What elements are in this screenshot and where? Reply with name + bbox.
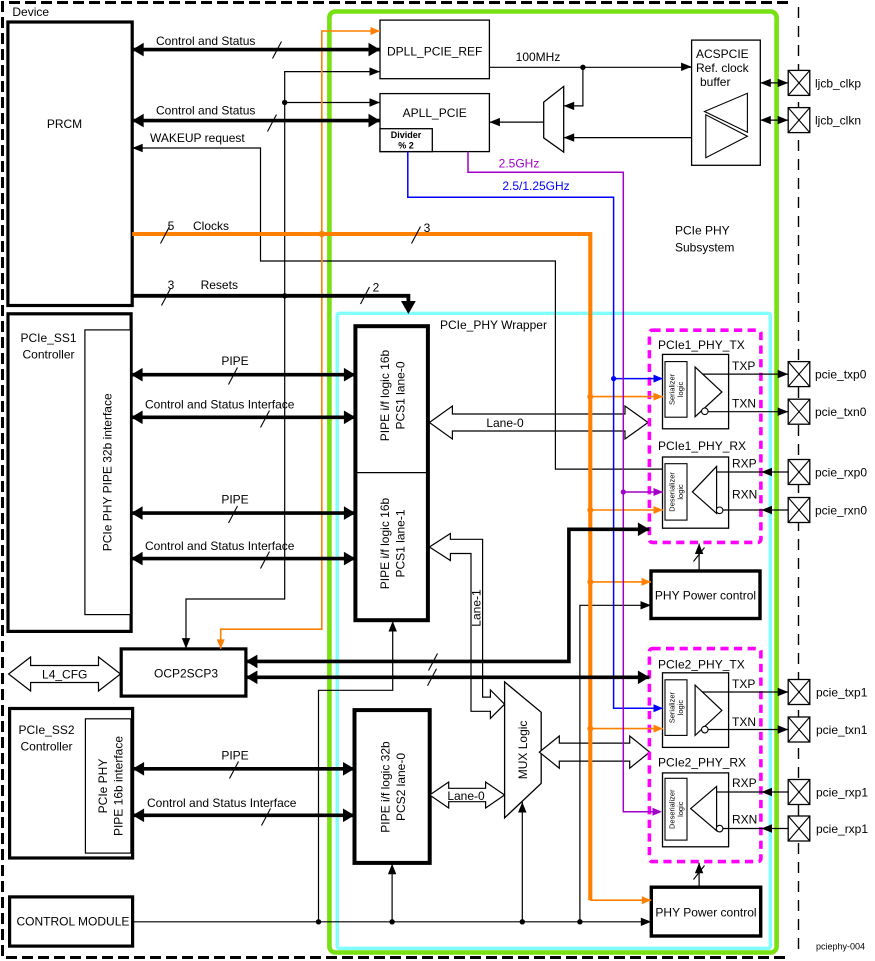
svg-text:PCIe PHY: PCIe PHY	[675, 224, 730, 238]
RX buffer triangle (PCIe1)	[692, 466, 716, 513]
wire TXP PCIe1 to pad pcie_txp0	[702, 373, 788, 375]
svg-text:Control and Status: Control and Status	[156, 34, 255, 48]
svg-text:2.5GHz: 2.5GHz	[499, 157, 540, 171]
block CONTROL MODULE	[10, 897, 133, 946]
svg-text:Lane-0: Lane-0	[486, 416, 524, 430]
svg-text:2.5/1.25GHz: 2.5/1.25GHz	[502, 179, 569, 193]
svg-text:Control and Status Interface: Control and Status Interface	[147, 796, 297, 810]
wire orange branch to serializer PCIe1	[590, 396, 663, 398]
svg-text:PCS2 lane-0: PCS2 lane-0	[394, 753, 408, 821]
wire orange branch to OCP2SCP3	[221, 234, 322, 649]
node orange junction at green boundary	[319, 231, 325, 237]
bus Control and Status PRCM-APLL	[132, 119, 380, 123]
svg-text:PIPE i/f logic 16b: PIPE i/f logic 16b	[378, 349, 392, 441]
svg-text:Lane-0: Lane-0	[447, 789, 485, 803]
svg-text:PRCM: PRCM	[47, 117, 82, 131]
svg-text:PCS1 lane-0: PCS1 lane-0	[394, 361, 408, 429]
node 100MHz junction	[580, 65, 585, 70]
wire CONTROL MODULE to PHY power controls	[133, 921, 652, 923]
svg-text:TXN: TXN	[732, 715, 756, 729]
block PIPE i/f logic 32b PCS2 lane-0	[355, 710, 430, 863]
svg-text:TXN: TXN	[732, 397, 756, 411]
wire purple branch to deserializer PCIe1	[623, 491, 663, 493]
slash on clocks bus	[161, 227, 170, 244]
bus Control and Status PRCM-DPLL	[132, 48, 380, 52]
PCIe2_PHY_RX inner box	[663, 773, 729, 847]
svg-text:L4_CFG: L4_CFG	[42, 668, 87, 682]
wire control module to PHY Power control upper	[580, 605, 651, 922]
wire 100MHz DPLL to ACSPCIE	[489, 66, 691, 68]
wire RXN pad to PCIe2 RX	[723, 828, 788, 830]
pad pcie_txp1	[788, 680, 810, 705]
TX buffer triangle (PCIe1)	[695, 367, 722, 417]
block PCIe_SS1 Controller	[8, 314, 131, 632]
node control module line junction 3	[520, 919, 525, 924]
svg-text:pcie_rxp0: pcie_rxp0	[815, 465, 867, 479]
PCIe2 PHY magenta dashed boundary	[649, 649, 761, 862]
svg-text:Device: Device	[12, 5, 49, 19]
bus Control and Status Interface SS1 lane0	[131, 415, 355, 419]
svg-text:pciephy-004: pciephy-004	[816, 942, 865, 952]
wire orange branch to PHY Power control upper	[590, 581, 651, 583]
svg-text:PCS1 lane-1: PCS1 lane-1	[394, 509, 408, 577]
clock mux symbol	[544, 86, 564, 152]
block PRCM	[8, 22, 132, 306]
slash on PIPE bus 3	[230, 762, 239, 779]
svg-text:pcie_rxp1: pcie_rxp1	[816, 785, 868, 799]
hollow arrow L4_CFG	[9, 657, 121, 691]
PCIe_SS2 inner PIPE 16b interface box	[85, 719, 130, 853]
ACSPCIE buffer triangle lower	[706, 115, 748, 158]
bus PIPE SS1 lane1	[131, 511, 355, 515]
slash on clocks bus branch 3	[412, 227, 421, 244]
wire TXN PCIe2 to pad pcie_txn1	[708, 729, 788, 731]
svg-text:PIPE: PIPE	[221, 748, 248, 762]
svg-text:3: 3	[168, 278, 175, 292]
svg-text:buffer: buffer	[700, 75, 730, 89]
svg-text:PIPE 16b interface: PIPE 16b interface	[112, 736, 126, 836]
slash on Control and Status bus 2	[268, 115, 277, 132]
svg-text:pcie_txn1: pcie_txn1	[816, 723, 868, 737]
svg-text:PCIe_SS2: PCIe_SS2	[18, 723, 74, 737]
PCIe1_PHY_RX inner box	[663, 457, 729, 528]
wire control module to PCS2 bottom	[391, 863, 393, 922]
svg-text:Controller: Controller	[22, 348, 74, 362]
wire orange branch to deserializer PCIe1	[590, 509, 663, 511]
TX inverter bubble (PCIe1)	[702, 408, 709, 415]
svg-text:ljcb_clkn: ljcb_clkn	[815, 114, 861, 128]
bus PIPE SS2	[133, 767, 355, 771]
bus OCP2SCP3 to PCIe1 PHY registers	[246, 529, 650, 661]
svg-text:PCIe_PHY Wrapper: PCIe_PHY Wrapper	[440, 318, 547, 332]
slash on CSI bus 1	[261, 411, 270, 428]
block PHY Power control (upper)	[651, 571, 760, 619]
wire PHY Power control lower to PCIe2 PHY	[698, 863, 700, 888]
PCIe1 PHY magenta dashed boundary	[649, 330, 761, 542]
slash on resets branch 2	[361, 287, 370, 304]
hollow arrow Lane-1 PCS1 to MUX (bent)	[429, 534, 504, 719]
svg-text:logic: logic	[676, 801, 685, 817]
slash on OCP2SCP3 bus 1	[429, 654, 438, 671]
svg-text:pcie_txp1: pcie_txp1	[816, 685, 868, 699]
svg-text:OCP2SCP3: OCP2SCP3	[154, 667, 218, 681]
wire control to DPLL and APLL thin inputs	[186, 72, 380, 649]
wire purple 2.5GHz from APLL	[468, 152, 660, 812]
svg-text:PIPE i/f logic 32b: PIPE i/f logic 32b	[379, 741, 393, 833]
wire orange branch to DPLL_PCIE_REF	[322, 31, 380, 234]
svg-text:TXP: TXP	[732, 359, 755, 373]
wire PHY Power control upper to PCIe1 PHY	[698, 544, 700, 572]
deserializer logic box (PCIe1)	[665, 464, 687, 520]
hollow arrow MUX to PCIe2 PHY	[539, 736, 649, 768]
bus Control and Status Interface SS1 lane1	[131, 557, 355, 561]
TX buffer triangle (PCIe2)	[695, 685, 722, 735]
pad ljcb_clkp	[788, 70, 810, 95]
RX inverter bubble (PCIe1)	[716, 507, 723, 514]
svg-text:RXP: RXP	[732, 457, 757, 471]
block PHY Power control (lower)	[651, 887, 760, 936]
svg-text:PHY Power control: PHY Power control	[655, 589, 756, 603]
svg-text:ACSPCIE: ACSPCIE	[696, 47, 749, 61]
node control module line junction 2	[389, 919, 394, 924]
pad pcie_rxn0	[788, 498, 810, 523]
PCIe_PHY Wrapper cyan boundary	[337, 313, 770, 948]
wire RXP pad pcie_rxp1 to PCIe2 RX	[717, 791, 789, 793]
svg-text:WAKEUP request: WAKEUP request	[150, 131, 245, 145]
svg-text:PCIe1_PHY_TX: PCIe1_PHY_TX	[658, 338, 745, 352]
node junction on control vertical	[282, 100, 287, 105]
svg-text:PCIe2_PHY_TX: PCIe2_PHY_TX	[658, 657, 745, 671]
svg-text:PCIe_SS1: PCIe_SS1	[20, 331, 76, 345]
svg-text:logic: logic	[676, 484, 685, 500]
bus Control and Status Interface SS2	[133, 813, 355, 817]
svg-text:DPLL_PCIE_REF: DPLL_PCIE_REF	[387, 45, 482, 59]
pad pcie_txn0	[788, 399, 810, 424]
node junction control vertical x resets	[282, 293, 287, 298]
svg-text:PIPE i/f logic 16b: PIPE i/f logic 16b	[378, 497, 392, 589]
TX inverter bubble (PCIe2)	[702, 726, 709, 733]
svg-text:RXN: RXN	[732, 488, 757, 502]
svg-text:Ref. clock: Ref. clock	[696, 61, 750, 75]
slash on CSI bus 3	[262, 809, 271, 826]
MUX Logic trapezoid	[505, 682, 542, 818]
node blue junction	[611, 376, 616, 381]
bus Resets PRCM to wrapper	[132, 296, 408, 302]
device boundary pad column dashed line	[798, 7, 800, 949]
svg-text:Controller: Controller	[20, 740, 72, 754]
PCIe1_PHY_TX inner box	[663, 354, 729, 428]
svg-text:Divider: Divider	[391, 130, 422, 140]
svg-text:APLL_PCIE: APLL_PCIE	[403, 106, 467, 120]
wire blue branch to serializer PCIe1	[614, 378, 663, 380]
svg-text:Control and Status: Control and Status	[156, 103, 255, 117]
svg-text:MUX Logic: MUX Logic	[516, 721, 530, 780]
svg-text:PCIe PHY PIPE 32b interface: PCIe PHY PIPE 32b interface	[101, 393, 115, 551]
wire blue 2.5/1.25GHz from APLL divider	[408, 152, 663, 709]
block APLL_PCIE	[380, 94, 489, 152]
block OCP2SCP3	[121, 649, 246, 696]
svg-text:Subsystem: Subsystem	[675, 241, 734, 255]
APLL divider box	[380, 129, 432, 152]
wire orange branch PHY power control lower	[590, 899, 651, 901]
slash on PIPE bus 2	[229, 506, 238, 523]
pad pcie_txn1	[788, 717, 810, 742]
svg-text:Control and Status Interface: Control and Status Interface	[145, 398, 295, 412]
wire orange branch to serializer PCIe2	[590, 728, 663, 730]
svg-text:RXP: RXP	[732, 776, 757, 790]
ACSPCIE buffer triangle upper	[705, 93, 748, 132]
block ACSPCIE Ref clock buffer	[692, 40, 761, 165]
bus PIPE SS1 lane0	[131, 373, 355, 377]
svg-text:Resets: Resets	[201, 278, 238, 292]
node control module line junction 1	[316, 919, 321, 924]
wire control module to PCS1 bottom	[319, 620, 393, 922]
wire ACSPCIE to clock mux lower input	[564, 137, 692, 139]
wire branch to APLL thin input	[285, 102, 380, 104]
svg-text:5: 5	[168, 219, 175, 233]
serializer logic box (PCIe2)	[665, 680, 687, 736]
svg-text:pcie_rxp1: pcie_rxp1	[816, 822, 868, 836]
slash on OCP2SCP3 bus 2	[428, 669, 437, 686]
slash on resets bus	[162, 289, 171, 306]
slash on PHY power control lower arrow	[694, 866, 705, 880]
bus OCP2SCP3 to PCIe2 PHY registers	[246, 675, 650, 679]
PCIe PHY Subsystem green boundary	[329, 12, 776, 953]
node purple junction	[621, 489, 626, 494]
wire ljcb_clkp to ACSPCIE (bidirectional)	[760, 82, 788, 84]
pad pcie_rxp1	[788, 780, 810, 805]
svg-text:pcie_rxn0: pcie_rxn0	[815, 503, 867, 517]
hollow arrow Lane-0 PCS2 to MUX	[430, 782, 505, 808]
block DPLL_PCIE_REF	[380, 20, 489, 79]
svg-text:% 2: % 2	[398, 141, 414, 151]
PCS1 lane divider line	[355, 472, 428, 474]
hollow arrow Lane-0 PCS1 to PCIe1 PHY	[429, 406, 648, 439]
svg-text:TXP: TXP	[732, 677, 755, 691]
wire TXP PCIe2 to pad pcie_txp1	[702, 691, 788, 693]
svg-text:pcie_txp0: pcie_txp0	[815, 367, 867, 381]
wire control module to MUX Logic select	[521, 802, 523, 922]
svg-text:PCIe1_PHY_RX: PCIe1_PHY_RX	[658, 439, 746, 453]
wire WAKEUP request from PCIe1 RX to PRCM	[132, 148, 662, 469]
svg-text:2: 2	[373, 281, 380, 295]
wire RXN pad pcie_rxn0 to PCIe1 RX	[723, 509, 788, 511]
wire 5 clocks orange bus PRCM to PHY	[132, 232, 590, 236]
wire RXP pad pcie_rxp0 to PCIe1 RX	[717, 471, 789, 473]
pad pcie_rxp0	[788, 460, 810, 485]
slash on PHY power control upper arrow	[694, 548, 705, 562]
block PCIe_SS2 Controller	[10, 709, 133, 859]
pad pcie_txp0	[788, 362, 810, 387]
svg-text:PCIe2_PHY_RX: PCIe2_PHY_RX	[658, 756, 746, 770]
wire ljcb_clkn to ACSPCIE (bidirectional)	[760, 119, 788, 121]
slash on PIPE bus 1	[229, 368, 238, 385]
node control module line junction 4	[577, 919, 582, 924]
RX buffer triangle (PCIe2)	[691, 786, 717, 830]
svg-text:CONTROL MODULE: CONTROL MODULE	[17, 915, 130, 929]
RX inverter bubble (PCIe2)	[716, 825, 723, 832]
svg-text:100MHz: 100MHz	[516, 50, 561, 64]
svg-text:PIPE: PIPE	[221, 493, 248, 507]
svg-text:PCIe PHY: PCIe PHY	[96, 759, 110, 814]
svg-text:logic: logic	[676, 381, 685, 397]
svg-text:pcie_txn0: pcie_txn0	[815, 405, 867, 419]
svg-text:Lane-1: Lane-1	[470, 589, 484, 627]
pad pcie_rxn1 (labelled pcie_rxp1)	[788, 816, 810, 841]
svg-text:Clocks: Clocks	[193, 219, 229, 233]
svg-text:RXN: RXN	[732, 813, 757, 827]
svg-text:PHY Power control: PHY Power control	[655, 906, 756, 920]
pad ljcb_clkn	[788, 108, 810, 133]
PCIe_SS1 inner PIPE 32b interface box	[85, 330, 131, 615]
svg-text:3: 3	[424, 221, 431, 235]
block PIPE i/f logic PCS1 (lane-0 / lane-1)	[355, 326, 428, 620]
wire clock mux output to APLL_PCIE	[489, 121, 543, 123]
svg-text:ljcb_clkp: ljcb_clkp	[815, 77, 861, 91]
slash on CSI bus 2	[261, 552, 270, 569]
wire 100MHz branch to clock mux	[564, 67, 583, 106]
svg-text:PIPE: PIPE	[221, 354, 248, 368]
svg-text:logic: logic	[676, 700, 685, 716]
PCIe2_PHY_TX inner box	[663, 673, 729, 748]
slash on Control and Status bus 1	[273, 42, 282, 59]
wire TXN PCIe1 to pad pcie_txn0	[708, 411, 788, 413]
svg-text:Control and Status Interface: Control and Status Interface	[145, 539, 295, 553]
serializer logic box (PCIe1)	[665, 362, 687, 418]
deserializer logic box (PCIe2)	[665, 778, 687, 840]
